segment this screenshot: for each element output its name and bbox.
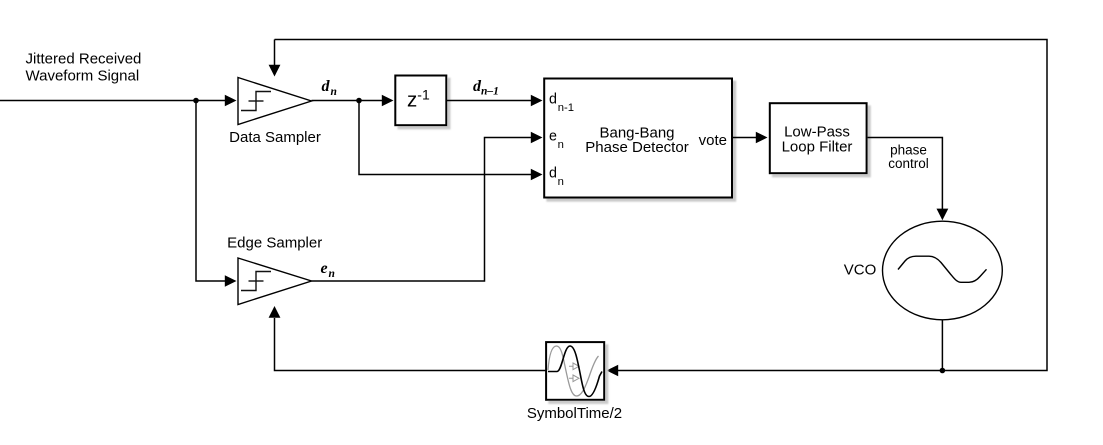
svg-text:Jittered Received: Jittered Received xyxy=(26,51,142,68)
svg-text:e: e xyxy=(549,129,557,145)
svg-text:Loop Filter: Loop Filter xyxy=(782,139,853,156)
svg-text:n: n xyxy=(558,139,564,151)
svg-text:n: n xyxy=(329,268,335,280)
svg-text:VCO: VCO xyxy=(844,262,877,279)
block bang-bang phase detector xyxy=(544,79,732,198)
svg-text:d: d xyxy=(549,91,557,107)
svg-text:n-1: n-1 xyxy=(558,102,574,114)
svg-text:z: z xyxy=(407,88,417,111)
svg-text:control: control xyxy=(888,156,929,171)
wire edge sampler output to phase detector en input xyxy=(312,132,543,281)
wire junction to symboltime delay xyxy=(607,365,943,377)
node input annotation xyxy=(26,51,142,85)
svg-text:Data Sampler: Data Sampler xyxy=(229,129,321,146)
svg-text:Phase Detector: Phase Detector xyxy=(585,139,688,156)
wire feedback right and top to data sampler xyxy=(275,40,1048,371)
wire loop filter to VCO xyxy=(868,138,949,221)
node signal label en xyxy=(321,260,335,280)
svg-text:n: n xyxy=(558,176,564,188)
svg-text:e: e xyxy=(321,260,328,277)
svg-text:d: d xyxy=(549,166,557,182)
block variable time delay SymbolTime/2 xyxy=(527,342,622,422)
wire junction down to edge sampler xyxy=(196,101,237,287)
wire input signal to data sampler xyxy=(0,95,237,107)
wire VCO output down to junction xyxy=(941,320,943,371)
svg-text:n: n xyxy=(331,86,337,98)
wire Z-1 output to phase detector dn-1 input xyxy=(446,95,542,107)
wire symboltime delay to edge sampler trigger xyxy=(269,306,546,371)
svg-text:Waveform Signal: Waveform Signal xyxy=(26,68,140,85)
svg-text:Edge Sampler: Edge Sampler xyxy=(227,235,322,252)
node junction VCO output xyxy=(940,368,946,374)
block low-pass loop filter xyxy=(770,103,867,173)
wire clock feedback top into data sampler trigger xyxy=(269,40,281,77)
node label phase control xyxy=(888,143,929,172)
svg-text:SymbolTime/2: SymbolTime/2 xyxy=(527,405,622,422)
block unit delay Z-1 xyxy=(395,76,446,126)
node signal label dn-1 xyxy=(473,78,499,98)
wire data sampler output to Z-1 xyxy=(312,95,394,107)
svg-text:-1: -1 xyxy=(417,87,430,103)
wire vote to low-pass loop filter xyxy=(733,132,768,144)
svg-text:d: d xyxy=(322,78,331,95)
block edge sampler triangle xyxy=(227,235,322,305)
node signal label dn xyxy=(322,78,337,98)
wire dn down to phase detector dn input xyxy=(359,101,543,181)
svg-text:n–1: n–1 xyxy=(481,86,499,98)
block data sampler triangle xyxy=(229,78,321,147)
node junction input split xyxy=(193,98,199,104)
svg-text:vote: vote xyxy=(699,132,727,149)
block VCO oscillator xyxy=(844,221,1003,320)
node junction dn split xyxy=(356,98,362,104)
